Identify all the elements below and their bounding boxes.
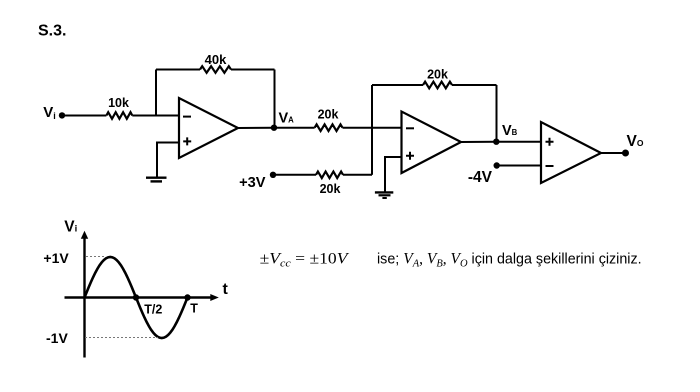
svg-text:-1V: -1V: [46, 330, 68, 346]
label T: [190, 302, 198, 316]
wire feedback top right U2: [452, 84, 497, 86]
label 10k: [108, 96, 129, 110]
wire node A to R3: [274, 127, 315, 129]
svg-text:T/2: T/2: [144, 303, 162, 317]
svg-text:VB: VB: [502, 123, 518, 139]
wire R3 to U2 inverting input: [343, 127, 402, 129]
label T/2: [144, 303, 162, 317]
label 20k feedback R4: [427, 68, 448, 82]
resistor R4 20k feedback: [423, 82, 452, 89]
resistor R1 10k: [106, 112, 132, 119]
wire Vi to R1: [62, 115, 106, 117]
wire U2 output to node B: [461, 141, 496, 143]
op-amp U1: [179, 98, 238, 158]
op-amp U3: [541, 122, 601, 183]
svg-text:+1V: +1V: [43, 250, 69, 266]
waveform sine curve: [85, 257, 188, 338]
wire feedback top right U1: [231, 69, 275, 71]
label VB: [502, 123, 518, 139]
label +3V: [239, 175, 266, 191]
node Vo output terminal: [622, 150, 629, 157]
label 20k input R3: [318, 108, 339, 122]
svg-text:-4V: -4V: [468, 169, 493, 186]
label -4V: [468, 169, 493, 186]
node +3V terminal: [270, 172, 276, 178]
resistor R2 40k: [200, 66, 231, 73]
resistor R5 20k: [316, 172, 343, 179]
node T on axis: [184, 294, 190, 300]
svg-text:T: T: [190, 302, 198, 316]
waveform dotted +1V level: [86, 256, 105, 258]
label 40k: [205, 52, 227, 67]
svg-text:VA: VA: [279, 110, 295, 126]
wire summing junction vertical: [371, 85, 373, 175]
wire feedback right vertical U2 to node B: [496, 85, 498, 142]
ground G2: [375, 192, 393, 198]
wire U2 non-inverting input: [385, 157, 402, 192]
svg-text:Vi: Vi: [64, 218, 77, 235]
svg-text:S.3.: S.3.: [38, 23, 66, 40]
svg-text:40k: 40k: [205, 52, 227, 67]
label equation Vcc: [260, 249, 350, 269]
wire R5 to summing junction: [343, 174, 372, 176]
svg-text:20k: 20k: [318, 108, 339, 122]
svg-text:±Vcc = ±10V: ±Vcc = ±10V: [260, 249, 350, 269]
op-amp U2: [402, 112, 462, 174]
label S.3.: [38, 23, 66, 40]
wire feedback top left U1: [156, 69, 200, 71]
svg-text:t: t: [223, 281, 229, 298]
waveform y-axis Vi: [81, 231, 88, 358]
label 20k R5: [320, 182, 341, 196]
label VA: [279, 110, 295, 126]
waveform x-axis t: [65, 294, 219, 301]
wire U3 output: [601, 152, 625, 154]
label waveform t: [223, 281, 229, 298]
label Vi: [43, 104, 56, 121]
svg-text:VO: VO: [627, 133, 644, 150]
waveform dotted -1V level: [85, 337, 158, 339]
label instruction text: [377, 251, 642, 270]
node T/2 on axis: [133, 294, 139, 300]
wire -4V to U3 inverting input: [497, 165, 541, 167]
wire node B to U3 non-inverting input: [496, 141, 541, 143]
wire feedback top left U2: [372, 84, 423, 86]
node B (VB): [493, 139, 499, 145]
svg-text:20k: 20k: [427, 68, 448, 82]
wire R1 to U1 inverting input: [132, 115, 179, 117]
label +1V: [43, 250, 69, 266]
label Vo: [627, 133, 644, 150]
svg-text:10k: 10k: [108, 96, 129, 110]
ground G1: [146, 178, 167, 182]
wire U1 non-inverting input: [157, 143, 179, 177]
svg-text:20k: 20k: [320, 182, 341, 196]
label -1V: [46, 330, 68, 346]
wire U1 output to node A: [238, 127, 274, 129]
resistor R3 20k: [315, 124, 343, 131]
node -4V terminal: [494, 162, 500, 168]
wire feedback left vertical U1: [155, 70, 157, 116]
wire +3V to R5: [273, 174, 316, 176]
label waveform Vi: [64, 218, 77, 235]
node Vi input terminal: [59, 112, 65, 118]
node A (VA): [271, 125, 277, 131]
svg-text:ise; VA, VB, VO için dalga şek: ise; VA, VB, VO için dalga şekillerini ç…: [377, 251, 642, 270]
svg-text:Vi: Vi: [43, 104, 56, 121]
svg-text:+3V: +3V: [239, 175, 266, 191]
wire feedback right vertical U1 to node A: [274, 70, 276, 128]
